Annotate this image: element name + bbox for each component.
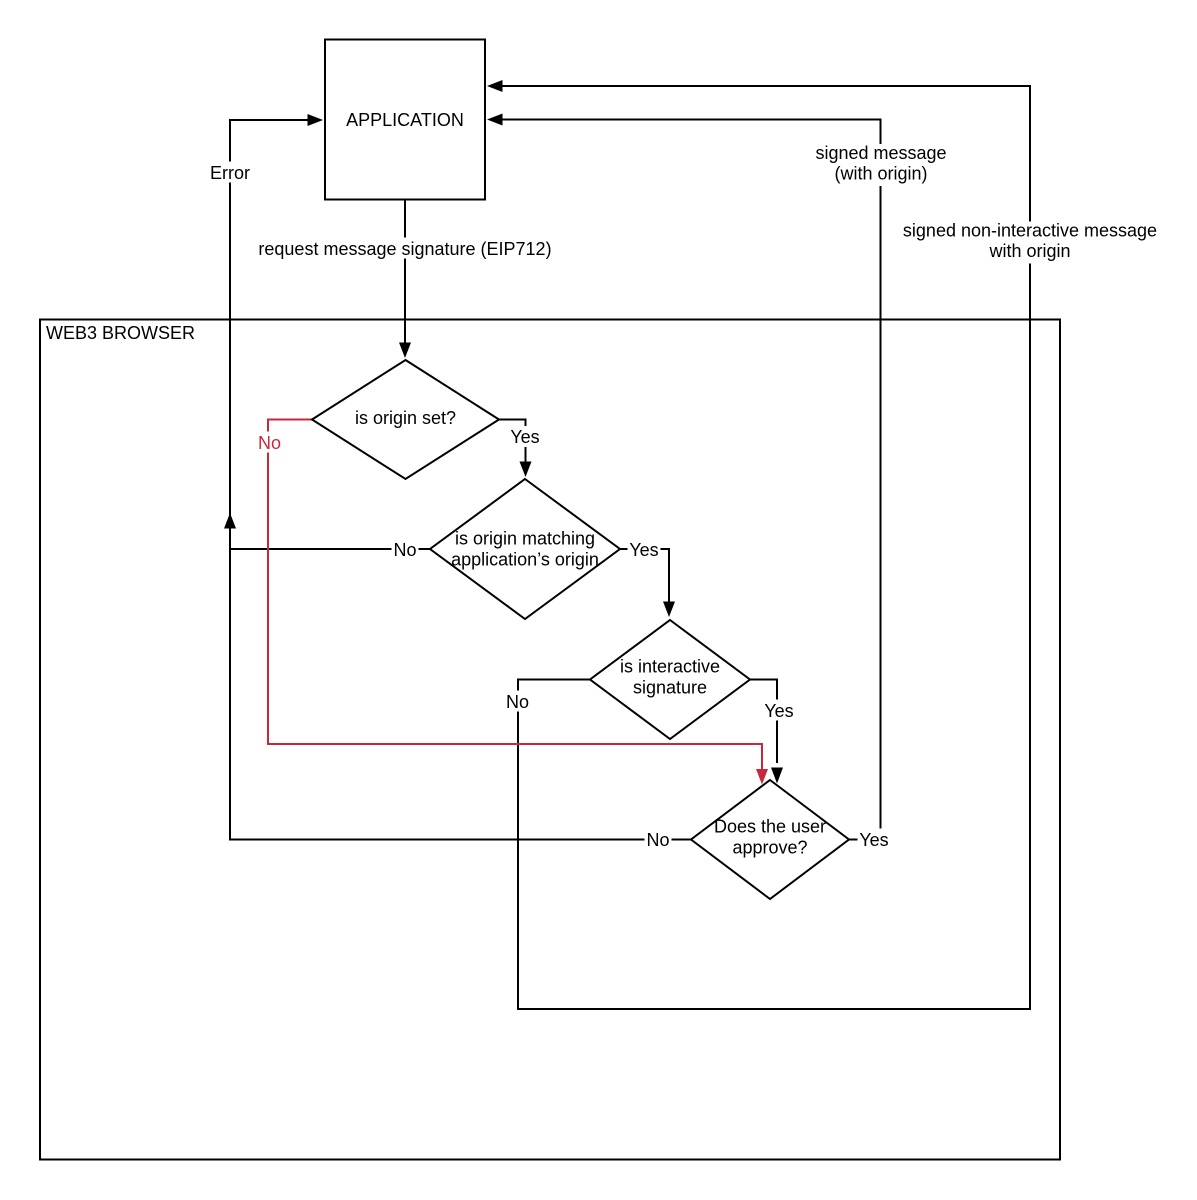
arrowhead into is origin set top bbox=[399, 343, 411, 359]
svg-text:is origin matching: is origin matching bbox=[455, 529, 595, 549]
svg-text:Yes: Yes bbox=[629, 540, 658, 560]
wire: No from does-user-approve left, up to error line junction bbox=[230, 529, 691, 840]
edge label Error bbox=[208, 162, 252, 183]
svg-text:Yes: Yes bbox=[859, 830, 888, 850]
edge label No (does user approve) bbox=[645, 829, 672, 850]
arrowhead into APPLICATION right top (signed non-interactive) bbox=[487, 80, 503, 92]
wire: Yes from is-origin-matching right to is-interactive top bbox=[620, 549, 669, 603]
wire: request message signature (APPLICATION bottom to is-origin-set top) bbox=[404, 200, 406, 344]
arrowhead into APPLICATION left (Error) bbox=[308, 114, 324, 126]
svg-text:Does the user: Does the user bbox=[714, 817, 826, 837]
decision diamond is interactive signature bbox=[590, 620, 750, 739]
wire: No from is-interactive left, signed non-interactive message loop into APPLICATION right bbox=[502, 86, 1030, 1009]
wire: red No from is-origin-set left down to does-user-approve bbox=[268, 420, 762, 771]
decision diamond is origin set? bbox=[312, 360, 499, 479]
edge label Yes (is origin matching) bbox=[628, 539, 661, 560]
arrowhead into APPLICATION right lower (signed message) bbox=[487, 114, 503, 126]
svg-text:(with origin): (with origin) bbox=[834, 164, 927, 184]
svg-text:signature: signature bbox=[633, 678, 707, 698]
wire: Yes from is-origin-set right to is-origin-matching top bbox=[499, 420, 526, 464]
decision diamond is origin matching application's origin bbox=[430, 479, 620, 619]
wire: Yes from is-interactive right to does-user-approve top bbox=[750, 680, 777, 764]
edge label Yes (is interactive) bbox=[763, 700, 796, 721]
arrowhead into is origin matching top bbox=[520, 462, 532, 478]
edge label No (is origin matching) bbox=[392, 539, 419, 560]
svg-text:Error: Error bbox=[210, 163, 250, 183]
svg-text:Yes: Yes bbox=[764, 701, 793, 721]
svg-text:Yes: Yes bbox=[510, 427, 539, 447]
svg-text:No: No bbox=[258, 433, 281, 453]
svg-text:request message signature (EIP: request message signature (EIP712) bbox=[258, 239, 551, 259]
svg-text:with origin: with origin bbox=[988, 241, 1070, 261]
container box WEB3 BROWSER bbox=[40, 320, 1060, 1160]
wire: Yes from does-user-approve right, signed message (with origin) up into APPLICATION right bbox=[502, 120, 881, 840]
wire: Error line up and into APPLICATION left bbox=[230, 120, 309, 549]
edge label signed message (with origin) bbox=[814, 144, 949, 186]
svg-text:No: No bbox=[393, 540, 416, 560]
svg-text:is interactive: is interactive bbox=[620, 657, 720, 677]
edge label No (red, is origin set) bbox=[256, 432, 283, 453]
svg-text:signed non-interactive message: signed non-interactive message bbox=[903, 221, 1157, 241]
edge label request message signature (EIP712) bbox=[256, 238, 554, 259]
arrowhead up at error line junction bbox=[224, 513, 236, 529]
svg-text:application’s origin: application’s origin bbox=[451, 550, 599, 570]
svg-text:No: No bbox=[646, 830, 669, 850]
svg-text:approve?: approve? bbox=[732, 838, 807, 858]
edge label No (is interactive) bbox=[504, 691, 531, 712]
wire: No from is-origin-matching left to error line bbox=[230, 548, 430, 550]
svg-text:No: No bbox=[506, 692, 529, 712]
edge label Yes (does user approve) bbox=[858, 829, 891, 850]
edge label Yes (is origin set) bbox=[509, 426, 542, 447]
svg-text:WEB3 BROWSER: WEB3 BROWSER bbox=[46, 323, 195, 343]
arrowhead into does user approve top (black) bbox=[771, 768, 783, 784]
arrowhead red into does user approve top bbox=[756, 769, 768, 785]
svg-text:APPLICATION: APPLICATION bbox=[346, 110, 464, 130]
decision diamond Does the user approve? bbox=[691, 780, 849, 899]
svg-text:signed message: signed message bbox=[815, 143, 946, 163]
edge label signed non-interactive message with origin bbox=[901, 222, 1159, 264]
arrowhead into is interactive top bbox=[663, 602, 675, 618]
process box APPLICATION bbox=[325, 40, 485, 200]
svg-text:is origin set?: is origin set? bbox=[355, 408, 456, 428]
